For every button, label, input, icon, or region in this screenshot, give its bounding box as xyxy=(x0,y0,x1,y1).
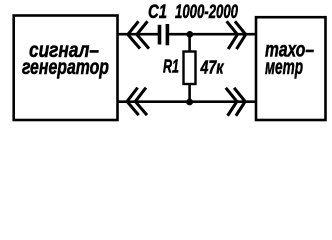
wire: resistor to bottom wire xyxy=(188,84,191,102)
connector arrows >> (top right) xyxy=(228,23,246,48)
svg-text:R1: R1 xyxy=(163,57,179,77)
capacitor C1 plates xyxy=(160,24,168,45)
wire: top, generator to capacitor C1 xyxy=(117,33,159,36)
svg-text:1000-2000: 1000-2000 xyxy=(175,2,238,23)
connector arrows << (top left) xyxy=(128,23,148,48)
connector arrows >> (bottom right) xyxy=(227,89,246,115)
wire: capacitor to tachometer (top) xyxy=(169,33,257,36)
box: tachometer xyxy=(256,17,326,120)
connector arrows << (bottom left) xyxy=(127,89,146,114)
box: signal generator xyxy=(14,16,118,121)
wire: bottom, generator to tachometer xyxy=(118,100,256,103)
svg-text:метр: метр xyxy=(265,56,303,79)
node: top junction xyxy=(186,31,193,38)
svg-text:С1: С1 xyxy=(148,2,167,23)
wire: junction down to resistor R1 xyxy=(188,34,191,51)
svg-text:47к: 47к xyxy=(200,58,224,78)
resistor R1 body xyxy=(184,52,196,85)
node: bottom junction xyxy=(186,99,193,106)
svg-text:генератор: генератор xyxy=(22,56,109,79)
